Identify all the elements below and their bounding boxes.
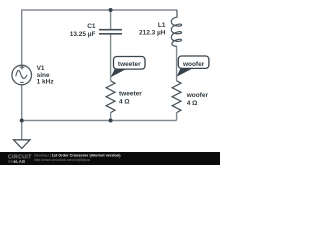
wire: tweeter resistor bottom to bottom rail	[110, 113, 112, 121]
wire: L1 bottom to woofer resistor	[176, 46, 178, 81]
inductor L1	[171, 10, 181, 46]
resistor R woofer	[172, 81, 181, 113]
svg-text:tweeter: tweeter	[119, 90, 142, 97]
node flag: tweeter	[114, 57, 146, 70]
svg-text:1 kHz: 1 kHz	[37, 79, 55, 86]
wire: top rail from V1 top to L1 top	[22, 10, 177, 65]
svg-text:woofer: woofer	[186, 92, 209, 99]
wire: top rail junction down to C1	[110, 10, 112, 29]
resistor R tweeter	[106, 81, 115, 113]
wire: woofer resistor bottom to bottom rail	[176, 113, 178, 121]
svg-text:4 Ω: 4 Ω	[187, 100, 198, 107]
wire: C1 bottom to tweeter resistor	[110, 35, 112, 81]
svg-text:woofer: woofer	[182, 61, 205, 68]
svg-text:tweeter: tweeter	[118, 61, 141, 68]
wire: ground stub	[21, 121, 23, 140]
svg-text:L1: L1	[158, 22, 166, 29]
svg-text:http://www.circuitlab.com/c/q5: http://www.circuitlab.com/c/q59jkua	[34, 158, 90, 162]
svg-text:13.25 µF: 13.25 µF	[70, 31, 96, 38]
voltage source V1	[12, 65, 32, 85]
node flag: woofer	[178, 56, 209, 68]
junction dot: bottom rail / tweeter	[109, 119, 113, 123]
wire: bottom rail	[22, 120, 177, 122]
svg-text:mtuchau | 1st Order Crossover: mtuchau | 1st Order Crossover (Internet …	[34, 154, 121, 158]
svg-text:≡≡■LAB: ≡≡■LAB	[8, 159, 25, 164]
junction dot: bottom rail / ground	[20, 119, 24, 123]
node flag tail: tweeter	[111, 68, 128, 77]
wire: V1 bottom to bottom rail	[21, 85, 23, 121]
junction dot: top rail / C1	[109, 8, 113, 12]
capacitor C1	[99, 30, 122, 34]
node flag tail: woofer	[177, 68, 193, 77]
svg-text:212.3 µH: 212.3 µH	[139, 29, 166, 36]
svg-text:C1: C1	[87, 23, 96, 30]
svg-text:4 Ω: 4 Ω	[119, 99, 130, 106]
ground	[14, 140, 31, 149]
watermark bar	[0, 152, 220, 165]
